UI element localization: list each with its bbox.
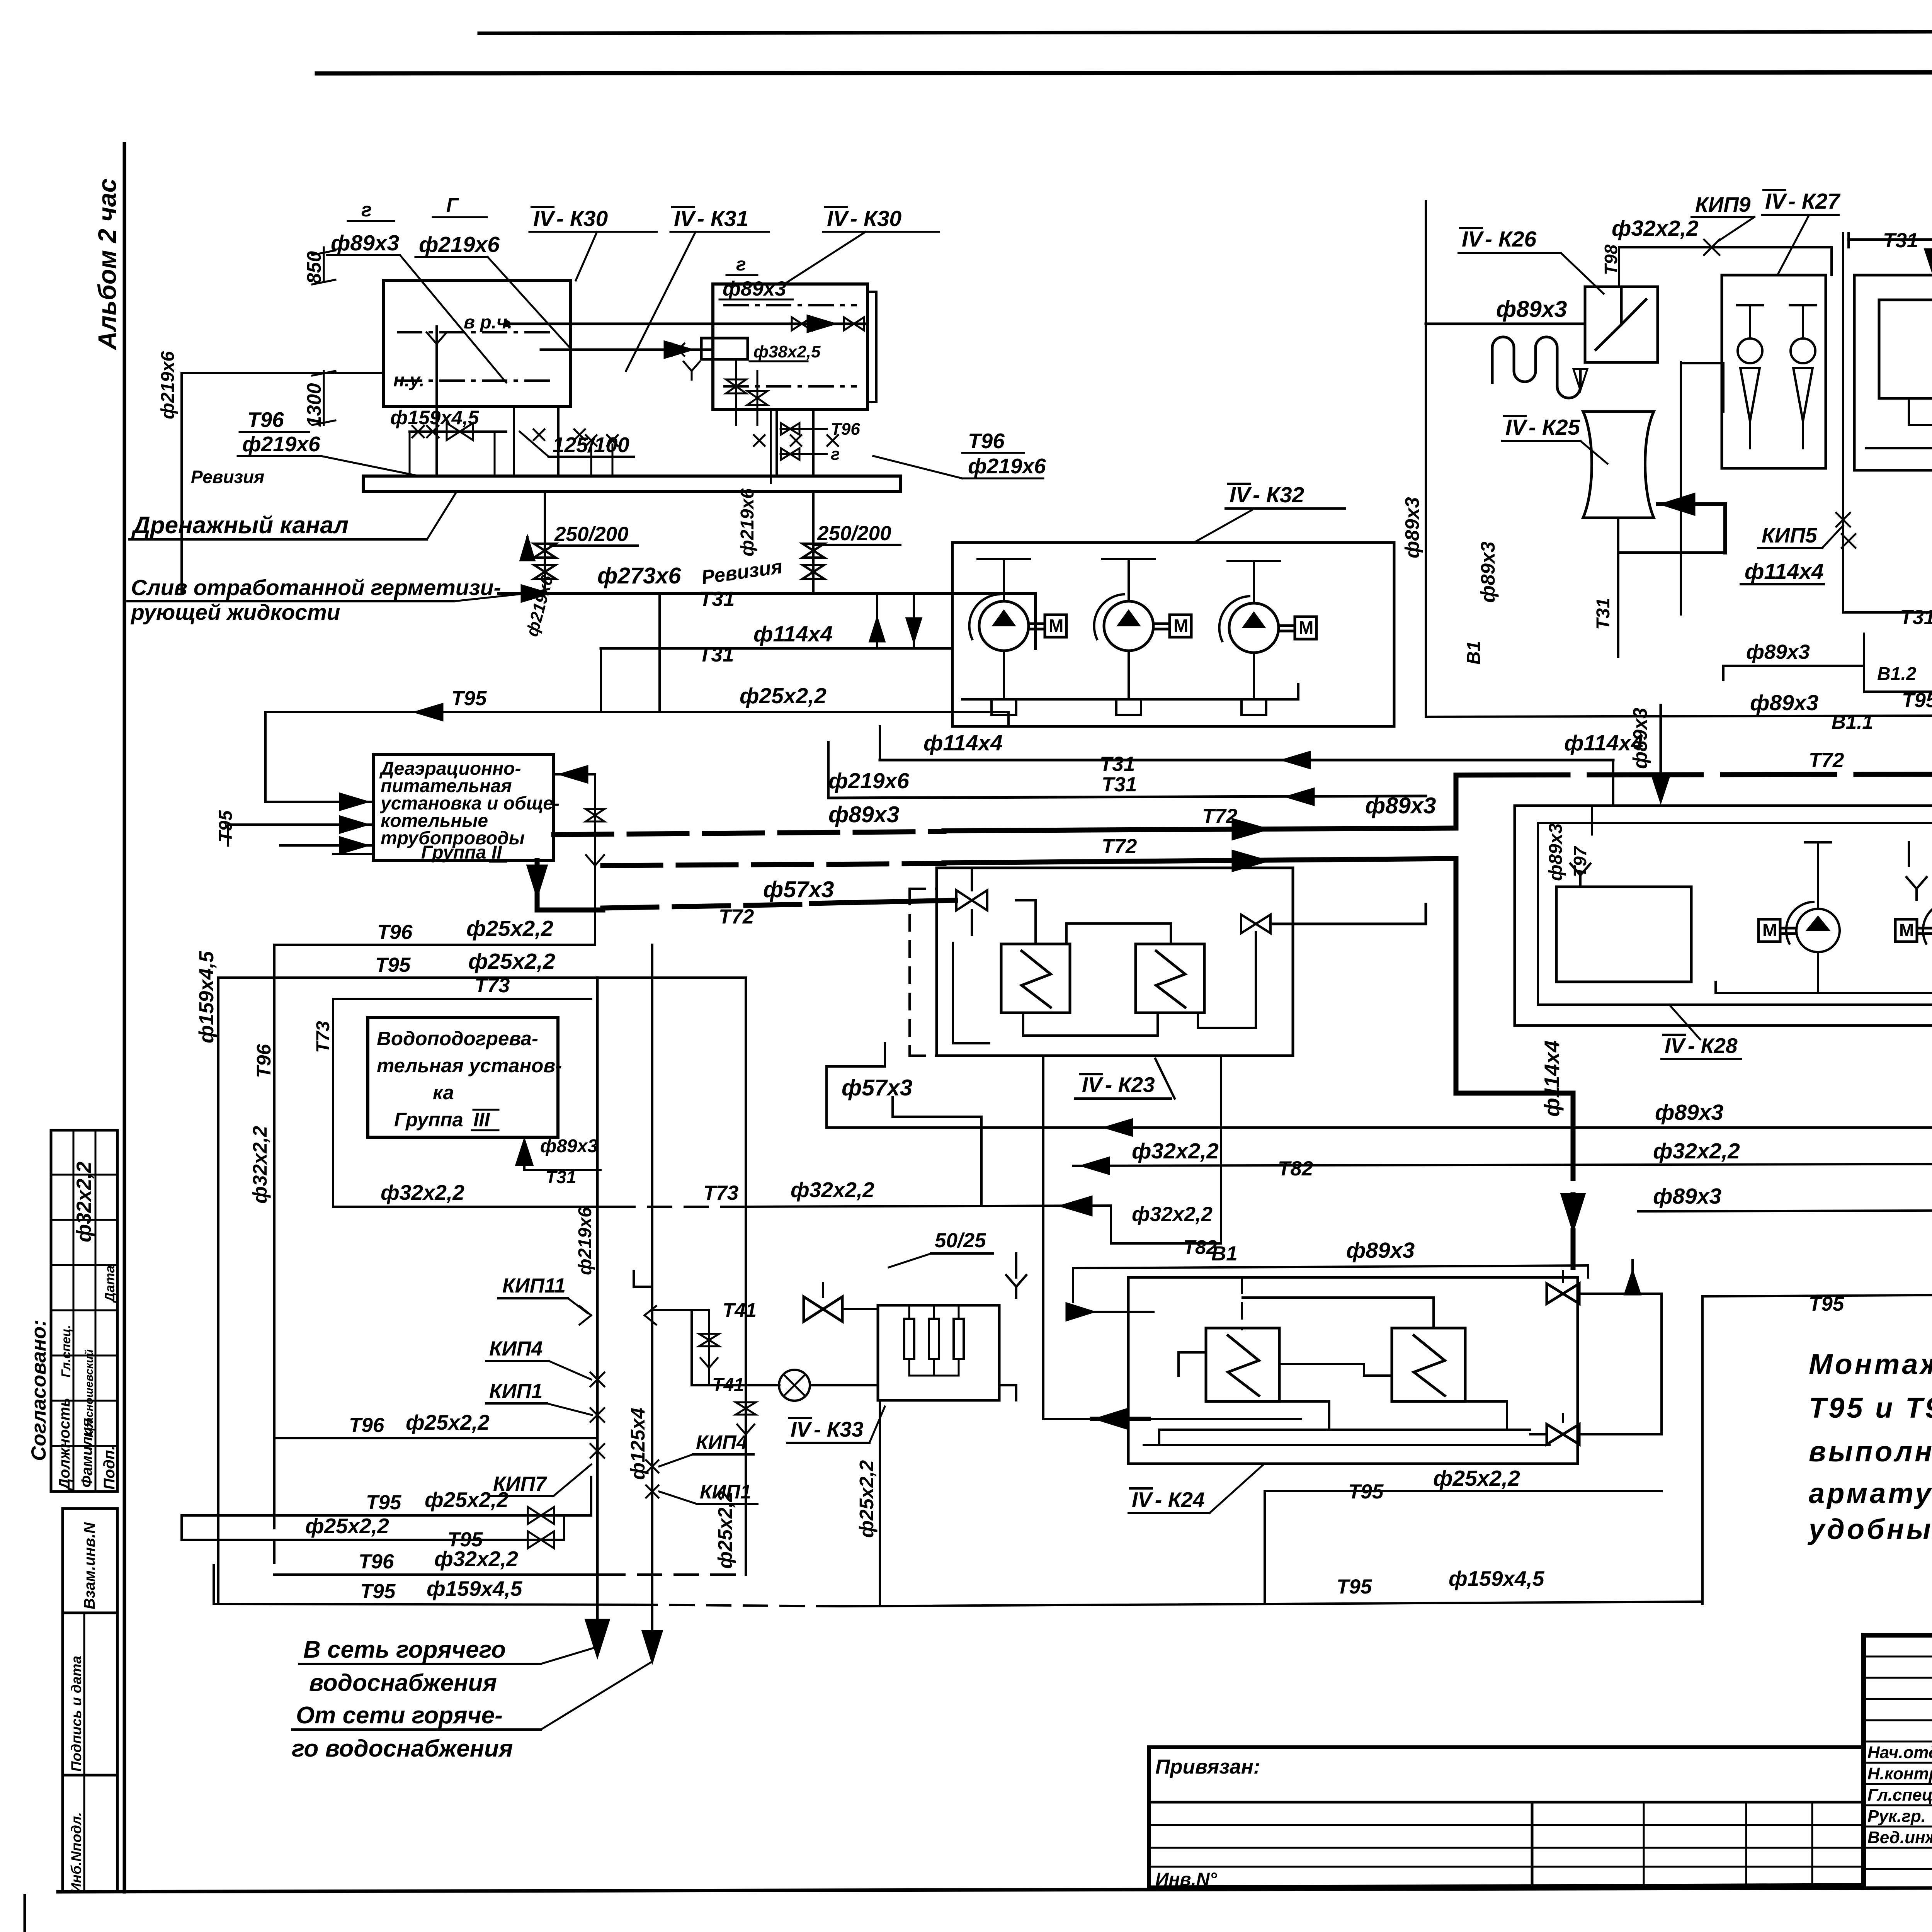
- svg-text:M: M: [1762, 920, 1777, 940]
- vertical B1 feed at x3690: [1401, 201, 1499, 717]
- svg-text:- К31: - К31: [697, 206, 748, 231]
- svg-text:Ревизия: Ревизия: [191, 467, 264, 487]
- tank IV-K31 (right tank pair): [713, 284, 876, 410]
- svg-text:Т31: Т31: [1900, 606, 1932, 629]
- svg-text:Альбом 2 час: Альбом 2 час: [93, 179, 121, 350]
- svg-text:Водоподогрева-: Водоподогрева-: [377, 1027, 538, 1049]
- svg-text:ф219х6: ф219х6: [242, 432, 320, 456]
- svg-text:Т96: Т96: [349, 1414, 384, 1437]
- svg-text:Гл.спец.: Гл.спец.: [59, 1325, 73, 1378]
- svg-text:ф32х2,2: ф32х2,2: [381, 1180, 464, 1204]
- svg-text:Красношевский: Красношевский: [83, 1349, 95, 1437]
- svg-text:В1.1: В1.1: [1832, 711, 1873, 733]
- thick main T72 upper (f89x3): [554, 793, 1456, 839]
- svg-text:Инб.Nподл.: Инб.Nподл.: [68, 1812, 84, 1893]
- pipe from IV-K23 right valve to T72 riser: [1270, 904, 1426, 924]
- svg-text:Т95: Т95: [451, 687, 487, 710]
- svg-text:Т73: Т73: [474, 974, 510, 997]
- svg-text:ф89х3: ф89х3: [1496, 296, 1567, 322]
- svg-text:850: 850: [303, 251, 325, 284]
- tank IV-K30 (left): [383, 281, 571, 406]
- T41 lower line to lamp: [692, 1310, 779, 1395]
- thick return line w/ left arrow inside K24: [1043, 1056, 1301, 1430]
- svg-text:Т96: Т96: [247, 408, 284, 432]
- svg-text:ф38х2,5: ф38х2,5: [753, 342, 821, 361]
- label IV-K32: [1194, 483, 1345, 543]
- feed tank inside IV-K28: [1556, 887, 1691, 982]
- return from Group II to T95 riser: [554, 766, 604, 945]
- svg-text:ф25х2,2: ф25х2,2: [855, 1460, 878, 1538]
- svg-text:Монтаж сливных трубопроводов: Монтаж сливных трубопроводов: [1809, 1348, 1932, 1380]
- svg-text:КИП4: КИП4: [696, 1431, 747, 1453]
- svg-text:Взам.инв.N: Взам.инв.N: [81, 1522, 98, 1609]
- svg-text:Т73: Т73: [313, 1021, 333, 1053]
- svg-text:Т95: Т95: [216, 810, 236, 842]
- small drain valves between tanks: [672, 344, 767, 425]
- f89x3 corner line bottom left of K28 (y3262): [1588, 1256, 1655, 1294]
- svg-text:ф125х4: ф125х4: [627, 1408, 649, 1480]
- svg-text:Т96: Т96: [359, 1550, 394, 1573]
- coil under IV-K26: [1492, 337, 1587, 398]
- svg-text:- К32: - К32: [1253, 483, 1304, 507]
- svg-text:Т95: Т95: [1337, 1575, 1372, 1598]
- f89x3 inlet to IV-K26: [1426, 296, 1585, 329]
- svg-text:Инв.N°: Инв.N°: [1155, 1869, 1218, 1890]
- f89x3 T97 labels rotated: [1546, 806, 1592, 881]
- small table Privyazan: [1149, 1747, 1864, 1890]
- svg-text:Группа: Группа: [394, 1109, 463, 1131]
- f114x4 label mid: [1741, 559, 1824, 584]
- svg-text:Т98: Т98: [1601, 244, 1621, 275]
- svg-text:M: M: [1299, 617, 1313, 638]
- svg-text:- К30: - К30: [556, 206, 608, 231]
- heat exchanger 2 of IV-K23: [1136, 944, 1204, 1013]
- svg-text:рующей жидкости: рующей жидкости: [130, 600, 340, 625]
- svg-text:ф32х2,2: ф32х2,2: [434, 1547, 518, 1571]
- svg-text:Согласовано:: Согласовано:: [27, 1320, 50, 1461]
- svg-text:КИП4: КИП4: [489, 1337, 543, 1360]
- T95 line from K29 region (y1790): [1864, 634, 1932, 1296]
- inlet arrow into IV-K25 from right: [1618, 494, 1725, 553]
- line f32x2.2 T82 (y3017): [1073, 1139, 1932, 1180]
- svg-text:Т31: Т31: [1102, 773, 1137, 796]
- svg-text:- К28: - К28: [1688, 1034, 1738, 1058]
- svg-text:ф32х2,2: ф32х2,2: [1132, 1139, 1219, 1163]
- signature grid: [1864, 1635, 1932, 1887]
- valve + strainer below lamp line: [714, 1385, 756, 1575]
- svg-text:Т96: Т96: [253, 1044, 275, 1078]
- svg-text:ф57х3: ф57х3: [842, 1075, 913, 1100]
- header box f38x2.5: [701, 338, 821, 361]
- svg-text:г: г: [361, 199, 372, 221]
- signature rows text: [1867, 1743, 1932, 1847]
- svg-text:ф89х3: ф89х3: [1346, 1238, 1415, 1263]
- svg-text:ф159х4,5: ф159х4,5: [195, 951, 218, 1043]
- K24 right loop to T95 line (y3360): [1702, 1269, 1932, 1604]
- to hot water network text: [299, 1636, 597, 1696]
- svg-text:ф89х3: ф89х3: [1629, 707, 1651, 769]
- thick T72 upper corner to right main: [1456, 749, 1932, 828]
- svg-text:ф32х2,2: ф32х2,2: [1132, 1203, 1213, 1226]
- svg-text:IV: IV: [1082, 1073, 1104, 1097]
- svg-text:Т31: Т31: [1593, 598, 1614, 630]
- svg-text:IV: IV: [1132, 1488, 1153, 1512]
- svg-text:Подпись и дата: Подпись и дата: [68, 1656, 84, 1772]
- svg-text:ф89х3: ф89х3: [1746, 641, 1810, 663]
- svg-text:ф219х6: ф219х6: [737, 488, 758, 556]
- dimension 850: [303, 247, 335, 284]
- riser into Group III (f89x3 T31): [516, 1136, 600, 1187]
- line T95 f25x2.2 below K24 (y3859): [1265, 1466, 1662, 1604]
- 50/25 strainer: [889, 1229, 1026, 1298]
- internal piping IV-K29: [1866, 305, 1932, 448]
- svg-text:Т95: Т95: [1902, 689, 1932, 712]
- discharge header inside IV-K32: [962, 651, 1298, 715]
- thermometer pockets on riser: [580, 1306, 656, 1325]
- drainage channel bar: [363, 476, 900, 492]
- svg-text:IV: IV: [1462, 227, 1484, 252]
- valves right side of IV-K24: [1530, 1271, 1662, 1444]
- svg-text:Слив отработанной герметизи-: Слив отработанной герметизи-: [131, 575, 501, 600]
- B1.1 long line (y1855): [1426, 690, 1932, 733]
- svg-text:ф25х2,2: ф25х2,2: [740, 684, 827, 708]
- svg-text:В1: В1: [1211, 1242, 1238, 1265]
- line B1 f89x3 lower (y3282): [1073, 1238, 1588, 1302]
- internal piping IV-K23: [953, 900, 1256, 1043]
- resistor bank box of IV-K33: [878, 1305, 999, 1400]
- svg-text:Т31: Т31: [699, 643, 734, 666]
- svg-text:ф219х6: ф219х6: [968, 454, 1046, 478]
- svg-text:IV: IV: [1665, 1034, 1686, 1058]
- left drain of tank IV-K30: [158, 327, 447, 594]
- svg-text:От сети горяче-: От сети горяче-: [296, 1702, 503, 1729]
- heat exchanger IV-K26: [1585, 287, 1658, 362]
- svg-text:КИП1: КИП1: [700, 1481, 751, 1503]
- pump unit box IV-K32: [952, 543, 1394, 726]
- svg-text:Т73: Т73: [703, 1182, 738, 1204]
- svg-text:ф114х4: ф114х4: [1745, 559, 1824, 584]
- title block main frame: [1864, 1635, 1932, 1887]
- svg-text:ф219х6: ф219х6: [575, 1207, 595, 1275]
- box IV-K24: [1128, 1277, 1578, 1464]
- water heating unit box (Group III): [368, 1017, 562, 1137]
- svg-text:арматуру установить в места: арматуру установить в местах: [1809, 1477, 1932, 1509]
- left stamp table 2 (Взам.инв.N): [63, 1509, 117, 1613]
- label IV-K26: [1459, 227, 1604, 294]
- svg-text:ф89х3: ф89х3: [1401, 497, 1423, 558]
- left long verticals with labels: [73, 945, 275, 1603]
- funnels inside IV-K27: [1731, 294, 1816, 456]
- internal piping IV-K24: [1144, 1298, 1549, 1445]
- svg-text:- К24: - К24: [1155, 1488, 1205, 1512]
- svg-text:Т95: Т95: [375, 954, 411, 976]
- svg-text:ф219х6: ф219х6: [158, 351, 178, 419]
- drainage channel label: [129, 493, 456, 539]
- svg-text:ф32х2,2: ф32х2,2: [73, 1162, 95, 1242]
- thick T72 lower run: [603, 835, 1456, 871]
- svg-text:ф32х2,2: ф32х2,2: [249, 1126, 271, 1204]
- svg-text:Т95: Т95: [1348, 1480, 1384, 1503]
- line T95 f159x4.5 long bottom (y4151): [214, 1565, 1702, 1606]
- svg-text:Привязан:: Привязан:: [1155, 1755, 1260, 1778]
- line T73 (y2585): [313, 974, 591, 1207]
- thick branch from Group II box bottom: [527, 861, 956, 928]
- box IV-K28: [1515, 806, 1932, 1026]
- drain line with valve f159x4.5: [390, 406, 506, 476]
- svg-text:- К23: - К23: [1105, 1073, 1155, 1097]
- T31 inlet to IV-K29: [1843, 229, 1932, 629]
- svg-text:- К25: - К25: [1529, 415, 1581, 440]
- svg-text:Т72: Т72: [1102, 835, 1137, 858]
- dimension 1300: [303, 371, 335, 427]
- svg-text:ф89х3: ф89х3: [1653, 1184, 1722, 1209]
- svg-text:IV: IV: [1765, 189, 1787, 214]
- svg-text:ф32х2,2: ф32х2,2: [1612, 216, 1699, 241]
- svg-text:выполнять согласно данной с: выполнять согласно данной схеме,: [1809, 1435, 1932, 1468]
- svg-text:ф25х2,2: ф25х2,2: [425, 1488, 509, 1512]
- svg-text:ф89х3: ф89х3: [540, 1136, 598, 1156]
- svg-text:го водоснабжения: го водоснабжения: [292, 1735, 513, 1762]
- T95 drop to group II: [265, 712, 374, 810]
- T95 main riser (x1546): [575, 978, 609, 1656]
- tank inside IV-K29: [1879, 300, 1932, 398]
- svg-text:ф25х2,2: ф25х2,2: [305, 1514, 389, 1538]
- pump P3 of IV-K32: [1229, 603, 1279, 653]
- down arrow into K28 (from f89x3 riser): [1629, 705, 1670, 802]
- labels over left tank: [327, 194, 657, 383]
- svg-text:ф114х4: ф114х4: [753, 622, 833, 646]
- svg-text:Т96: Т96: [968, 429, 1005, 453]
- svg-text:н.у.: н.у.: [393, 370, 425, 391]
- svg-text:250/200: 250/200: [817, 522, 891, 545]
- svg-text:II: II: [492, 842, 502, 863]
- f57x3 label lower: [842, 1075, 981, 1206]
- 125/100 label: [520, 432, 634, 457]
- K25 drain down: [1593, 362, 1723, 657]
- line T96 f32x2.2 (y4075): [274, 1547, 746, 1575]
- svg-text:Г: Г: [446, 194, 459, 216]
- svg-text:Т95 и Т96 диаметром менее 4: Т95 и Т96 диаметром менее 45мм: [1809, 1392, 1932, 1424]
- svg-text:- К33: - К33: [814, 1417, 864, 1441]
- left stamp table 3 (Подпись и дата): [63, 1613, 117, 1775]
- inter-tank piping: [503, 316, 867, 358]
- svg-text:В1.2: В1.2: [1877, 664, 1917, 684]
- label IV-K24: [1129, 1464, 1264, 1513]
- svg-text:ф89х3: ф89х3: [828, 802, 900, 827]
- svg-text:КИП1: КИП1: [489, 1380, 543, 1403]
- thick T72 drop at x3768: [1454, 859, 1459, 1093]
- KIP5 marks: [1758, 513, 1855, 548]
- svg-text:IV: IV: [791, 1417, 812, 1441]
- svg-text:Т31: Т31: [1100, 753, 1135, 776]
- svg-text:ф32х2,2: ф32х2,2: [791, 1178, 874, 1202]
- vertical from T31 to T95 line: [658, 594, 661, 712]
- svg-text:Т96: Т96: [377, 921, 413, 944]
- fittings row below tank IV-K31: [754, 410, 1046, 478]
- svg-text:- К26: - К26: [1485, 227, 1537, 252]
- heat exchanger 1 of IV-K24: [1206, 1328, 1279, 1401]
- svg-text:ф219х6: ф219х6: [828, 769, 909, 793]
- svg-text:ф159х4,5: ф159х4,5: [390, 406, 479, 429]
- svg-text:M: M: [1899, 920, 1914, 940]
- T41 upper line: [634, 1271, 757, 1385]
- svg-text:КИП9: КИП9: [1695, 192, 1751, 216]
- svg-text:г: г: [736, 254, 746, 275]
- svg-text:Т82: Т82: [1278, 1157, 1313, 1180]
- heater box IV-K23: [910, 868, 1293, 1056]
- svg-text:ф159х4,5: ф159х4,5: [427, 1577, 523, 1600]
- svg-text:Т41: Т41: [712, 1375, 744, 1395]
- line f114x4 T31 center (y1967): [880, 726, 1643, 806]
- svg-text:ф219х6: ф219х6: [419, 232, 500, 257]
- label IV-K25: [1502, 415, 1607, 464]
- svg-text:- К27: - К27: [1788, 189, 1841, 214]
- svg-text:ф114х4: ф114х4: [923, 731, 1003, 755]
- line f32x2.2 T82 second corner (y3120): [1111, 1056, 1221, 1258]
- KIP labels column: [486, 1274, 604, 1496]
- svg-text:ф89х3: ф89х3: [1750, 690, 1819, 715]
- svg-text:IV: IV: [1505, 415, 1528, 440]
- svg-text:ф89х3: ф89х3: [1477, 541, 1499, 603]
- svg-text:Т31: Т31: [699, 588, 735, 611]
- svg-text:Т95: Т95: [1809, 1293, 1845, 1315]
- pump 1 of IV-K28: [1796, 909, 1840, 952]
- svg-text:ка: ка: [433, 1082, 454, 1104]
- fittings row below tank IV-K30: [514, 406, 618, 476]
- svg-text:тельная установ-: тельная установ-: [377, 1054, 562, 1077]
- svg-text:ф89х3: ф89х3: [723, 277, 786, 300]
- from hot water network text: [292, 1662, 652, 1762]
- vent Y on tank: [1579, 875, 1582, 886]
- big valve of IV-K33: [804, 1297, 823, 1321]
- signal lamp of IV-K33: [779, 1370, 878, 1401]
- label IV-K23: [1075, 1059, 1175, 1099]
- svg-text:50/25: 50/25: [935, 1229, 986, 1252]
- left stamp table 4 (Инв.N подл.): [63, 1775, 117, 1893]
- line f219x6 T31 (y2065): [828, 742, 1426, 805]
- svg-text:ф32х2,2: ф32х2,2: [1653, 1139, 1740, 1163]
- suction header inside IV-K32: [978, 559, 1280, 603]
- svg-text:Вед.инж: Вед.инж: [1867, 1828, 1932, 1847]
- svg-text:Н.контр.: Н.контр.: [1867, 1764, 1932, 1783]
- svg-text:Должность: Должность: [56, 1398, 73, 1491]
- left stamp table 1: [51, 1130, 118, 1492]
- svg-text:Т41: Т41: [723, 1299, 757, 1321]
- svg-text:ф57х3: ф57х3: [763, 877, 834, 902]
- line B1 f89x3 (y2918): [827, 1043, 1932, 1144]
- svg-text:- К30: - К30: [850, 206, 902, 231]
- svg-text:ф114х4: ф114х4: [1540, 1040, 1564, 1117]
- svg-text:КИП11: КИП11: [502, 1274, 566, 1297]
- svg-text:Т95: Т95: [360, 1580, 396, 1603]
- T96 f219x6 drain labels (left): [238, 408, 415, 475]
- svg-text:Гл.спец.: Гл.спец.: [1867, 1786, 1932, 1804]
- internal piping IV-K28: [1716, 798, 1932, 1012]
- f32x2.2 T98 top line with KIP9: [1601, 192, 1832, 287]
- box IV-K27: [1722, 275, 1826, 468]
- box IV-K29: [1854, 275, 1932, 470]
- svg-text:КИП5: КИП5: [1762, 523, 1818, 547]
- line T95 f25x2.2 with valve (y3922): [182, 1477, 591, 1540]
- line T31 f273x6: [498, 563, 1036, 648]
- label IV-K27: [1762, 189, 1841, 275]
- svg-text:III: III: [473, 1109, 490, 1131]
- svg-text:1300: 1300: [303, 383, 325, 427]
- feed arrows into Group II box: [216, 810, 374, 854]
- label IV-K28: [1662, 1005, 1741, 1059]
- svg-text:водоснабжения: водоснабжения: [309, 1670, 497, 1696]
- svg-text:Т31: Т31: [546, 1167, 576, 1187]
- svg-text:ф89х3: ф89х3: [1655, 1100, 1724, 1125]
- svg-text:ф25х2,2: ф25х2,2: [466, 916, 553, 941]
- line f25x2.2 T95 with valve (y3985): [182, 1514, 564, 1551]
- svg-text:Т97: Т97: [1570, 845, 1590, 877]
- T96 valves right of tank pair: [771, 410, 860, 483]
- B1.2 f89x3 line (y1698-1723): [1723, 641, 1917, 684]
- svg-text:Подп.: Подп.: [101, 1446, 118, 1490]
- line T95 f25x2.2 (y2530): [218, 949, 746, 1385]
- svg-text:Т72: Т72: [1202, 805, 1237, 828]
- svg-text:удобных для обслуживания.: удобных для обслуживания.: [1807, 1513, 1932, 1545]
- svg-text:M: M: [1049, 616, 1063, 636]
- svg-text:IV: IV: [533, 206, 556, 231]
- svg-text:ф25х2,2: ф25х2,2: [406, 1410, 490, 1434]
- svg-text:Т95: Т95: [366, 1491, 402, 1514]
- risers from T31 header down w/ flow arrows: [870, 594, 921, 648]
- svg-text:IV: IV: [1230, 483, 1252, 507]
- svg-text:IV: IV: [827, 206, 849, 231]
- pump P2 of IV-K32: [1104, 601, 1153, 651]
- heat exchanger 1 of IV-K23: [1001, 944, 1070, 1013]
- svg-text:ф159х4,5: ф159х4,5: [1449, 1566, 1545, 1590]
- deaeration unit box (Group II): [374, 755, 560, 863]
- line T96 f25x2.2 (y3722): [274, 1410, 597, 1438]
- installation note text: [1807, 1348, 1932, 1545]
- cooler IV-K25 (hourglass vessel): [1583, 412, 1654, 553]
- pump P1 of IV-K32: [979, 601, 1029, 651]
- hot water supply riser arrow: [627, 945, 662, 1662]
- label IV-K33: [787, 1406, 885, 1443]
- labels over right tank: [626, 206, 939, 371]
- valve on T72 inlet of IV-K23: [956, 890, 972, 910]
- risers below channel to T31 header: [520, 492, 900, 594]
- svg-text:Группа: Группа: [421, 842, 486, 863]
- line f89x3 B1.2 (y3135): [1638, 1184, 1932, 1227]
- svg-text:ф89х3: ф89х3: [1546, 823, 1566, 881]
- heat exchanger 2 of IV-K24: [1392, 1328, 1465, 1401]
- svg-text:ф25х2,2: ф25х2,2: [468, 949, 555, 974]
- line T96 f25x2.2 (y2445): [274, 916, 595, 945]
- svg-text:ф273х6: ф273х6: [597, 563, 681, 588]
- svg-text:250/200: 250/200: [554, 523, 629, 546]
- KIP4 / KIP1 labels right column: [646, 1431, 757, 1504]
- line T95 f25x2.2: [265, 684, 1009, 726]
- svg-text:IV: IV: [674, 206, 696, 231]
- svg-text:M: M: [1173, 616, 1188, 636]
- svg-text:Дренажный канал: Дренажный канал: [131, 512, 349, 539]
- svg-text:Т31: Т31: [1883, 229, 1918, 252]
- drop from IV-K33 to bottom main: [855, 1385, 1016, 1604]
- svg-text:Нач.отд.: Нач.отд.: [1867, 1743, 1932, 1762]
- line T73 f32x2.2 long (y3123): [333, 1178, 1111, 1215]
- svg-text:Т72: Т72: [1809, 749, 1844, 772]
- valve at right inside IV-K23: [1241, 915, 1256, 933]
- svg-text:В1: В1: [1464, 641, 1484, 665]
- svg-text:В сеть горячего: В сеть горячего: [303, 1636, 506, 1663]
- svg-text:ф89х3: ф89х3: [331, 231, 400, 255]
- svg-text:г: г: [831, 445, 840, 464]
- svg-text:ф25х2,2: ф25х2,2: [1433, 1466, 1520, 1491]
